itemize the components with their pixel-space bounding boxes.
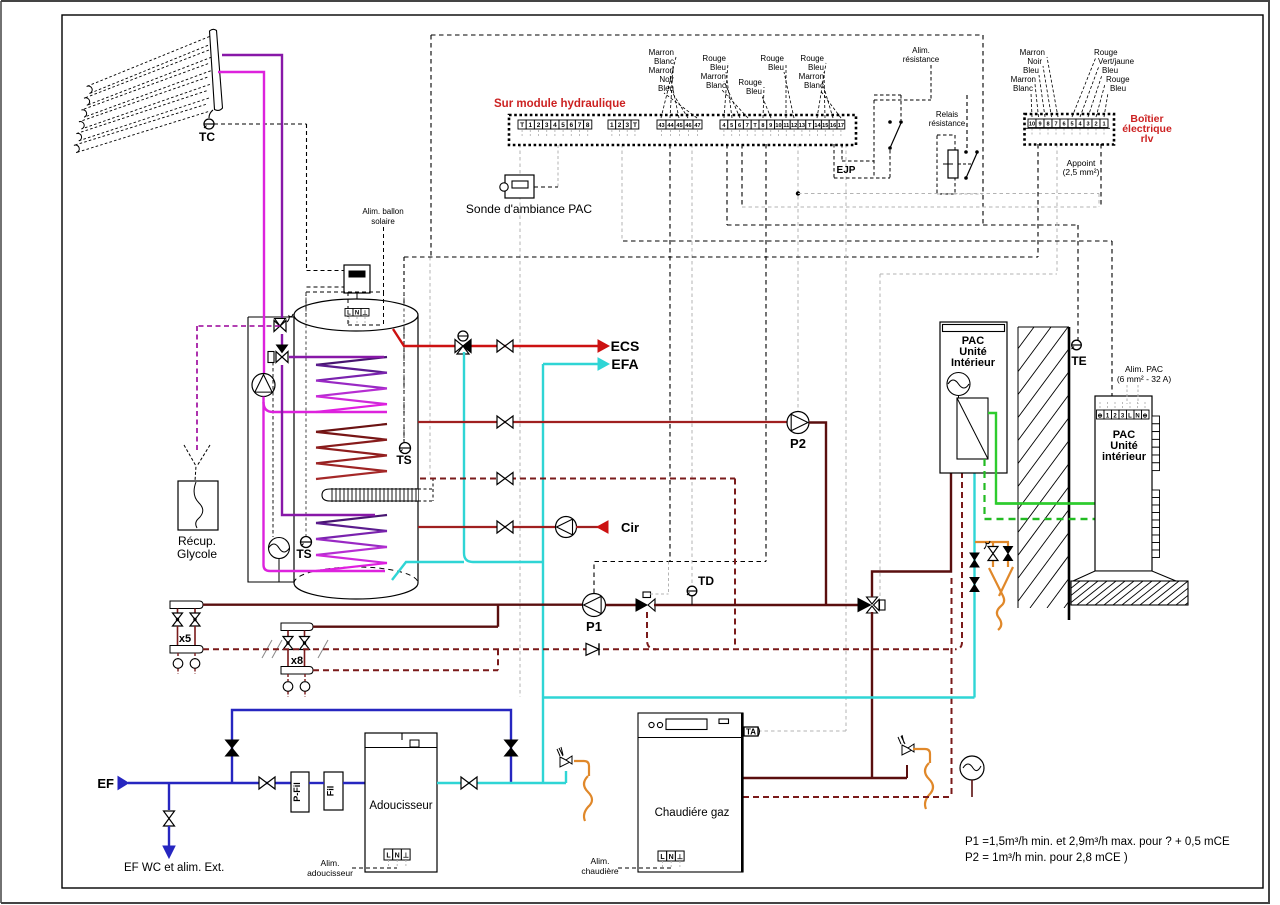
svg-text:Chaudiére gaz: Chaudiére gaz	[655, 807, 730, 819]
svg-text:Blanc: Blanc	[654, 57, 674, 66]
svg-text:2: 2	[1094, 122, 1097, 128]
svg-text:2: 2	[618, 122, 622, 129]
svg-text:6: 6	[569, 122, 573, 129]
svg-text:Marron: Marron	[799, 72, 824, 81]
pump Cir	[556, 517, 577, 538]
svg-text:Rouge: Rouge	[702, 54, 726, 63]
wire TC dashed	[214, 123, 307, 125]
adoucisseur box	[365, 733, 437, 872]
pipe Cir red	[418, 526, 556, 528]
svg-text:Rouge: Rouge	[738, 78, 762, 87]
svg-text:Alim.: Alim.	[912, 46, 930, 55]
funnel to glycol	[184, 445, 196, 481]
PAC hydraulic unit box	[940, 322, 1007, 473]
wire alim ballon	[383, 227, 385, 292]
svg-text:5: 5	[730, 123, 733, 129]
PAC isolation valves	[970, 553, 979, 560]
pipe boiler return dashed	[743, 578, 952, 797]
relay switch	[958, 163, 971, 165]
svg-text:P2: P2	[790, 436, 806, 451]
svg-text:8: 8	[761, 123, 764, 129]
wire gray y207	[742, 206, 1099, 208]
svg-text:16: 16	[830, 123, 836, 129]
svg-text:Alim. ballon: Alim. ballon	[362, 207, 403, 216]
arrow EFA	[598, 358, 609, 370]
terminal strip 10-1	[1028, 119, 1036, 128]
svg-text:EF WC et alim. Ext.: EF WC et alim. Ext.	[124, 862, 224, 874]
svg-text:9: 9	[769, 123, 772, 129]
svg-text:8: 8	[1046, 122, 1049, 128]
PAC base trapezoid	[1073, 571, 1176, 581]
arrow ECS	[598, 340, 609, 352]
terminal strip T1-8	[518, 120, 526, 129]
wire gray x1099	[1098, 194, 1100, 208]
svg-text:solaire: solaire	[371, 217, 395, 226]
3-way valve heating	[636, 599, 647, 611]
check valve return	[586, 643, 599, 655]
pipe cold feed to PAC	[543, 472, 975, 698]
svg-text:intérieur: intérieur	[1102, 451, 1147, 463]
svg-text:5: 5	[561, 122, 565, 129]
pipe P1 to valve	[606, 604, 641, 606]
sensor TS upper	[400, 443, 411, 454]
svg-text:T: T	[808, 123, 812, 129]
wire black x404 tank sensor well	[403, 257, 405, 443]
wire gray P2 power	[797, 144, 799, 411]
svg-text:7: 7	[746, 123, 749, 129]
valve EF	[259, 777, 267, 789]
svg-text:3: 3	[1086, 122, 1089, 128]
tank body	[294, 299, 418, 599]
relay coil	[948, 150, 958, 178]
svg-text:T: T	[520, 122, 524, 129]
manifold x8 bottom	[281, 667, 313, 675]
manifold x5 top	[170, 601, 203, 609]
svg-text:8: 8	[586, 122, 590, 129]
sensor TD	[687, 586, 697, 596]
pipe tank to P2	[418, 421, 787, 423]
pipe ECS red	[393, 329, 456, 346]
pipe Cir to arrow	[576, 526, 608, 528]
svg-text:(6 mm² - 32 A): (6 mm² - 32 A)	[1117, 374, 1171, 384]
safety group sanitary	[565, 771, 567, 783]
pump P2	[787, 412, 809, 434]
svg-text:11: 11	[783, 123, 789, 129]
svg-text:10: 10	[775, 123, 781, 129]
svg-text:N: N	[355, 311, 359, 317]
svg-text:Bleu: Bleu	[746, 87, 762, 96]
svg-text:Sonde d'ambiance PAC: Sonde d'ambiance PAC	[466, 202, 592, 216]
solar station frame	[248, 317, 294, 582]
PAC interior unit box	[1095, 396, 1152, 571]
svg-text:Noir: Noir	[1027, 57, 1042, 66]
wire TC to controller	[306, 124, 308, 271]
svg-text:Alim.: Alim.	[591, 856, 610, 866]
pipe x8 return dashed	[313, 652, 498, 673]
svg-text:TC: TC	[199, 130, 215, 144]
solar collector panel	[74, 29, 223, 152]
svg-text:3: 3	[545, 122, 549, 129]
svg-text:Rouge: Rouge	[760, 54, 784, 63]
svg-text:5: 5	[1070, 122, 1073, 128]
pipe tank middle coil return dashed	[420, 478, 735, 480]
pipe boiler supply	[743, 777, 907, 779]
wire black x727 to TE run	[726, 144, 728, 225]
svg-text:43: 43	[658, 123, 664, 129]
svg-text:P1: P1	[586, 619, 602, 634]
svg-text:Glycole: Glycole	[177, 547, 217, 561]
PAC fins upper	[1152, 416, 1160, 424]
pipe heating return dashed	[203, 648, 952, 650]
wire black x1101	[1100, 144, 1102, 207]
wire sonde dashed	[534, 186, 558, 188]
wires to alim pac	[1126, 385, 1128, 404]
svg-text:EJP: EJP	[837, 165, 856, 176]
svg-text:x5: x5	[179, 633, 191, 645]
thermostat TA	[744, 727, 758, 736]
x5 valves	[177, 609, 179, 614]
module dashed enclosure top	[431, 34, 983, 36]
svg-text:Marron: Marron	[649, 48, 674, 57]
svg-text:L: L	[660, 854, 665, 861]
pipe valve outlet to boiler	[871, 612, 873, 778]
arrow Cir	[597, 521, 608, 533]
wire y561 valve to strip	[669, 561, 767, 563]
wire alim adoucisseur	[352, 867, 397, 869]
terminal box boitier electrique	[1025, 114, 1115, 145]
wire black x1112 to PAC terminals	[1111, 241, 1113, 400]
svg-text:Noir: Noir	[659, 75, 674, 84]
module dashed enclosure right	[982, 35, 984, 225]
svg-text:N: N	[395, 853, 400, 860]
svg-text:Récup.: Récup.	[178, 534, 216, 548]
svg-text:Blanc: Blanc	[804, 81, 824, 90]
wire valve actuator gray	[650, 593, 669, 595]
svg-text:⊥: ⊥	[677, 853, 683, 861]
svg-text:46: 46	[685, 123, 691, 129]
svg-text:EF: EF	[97, 776, 114, 791]
svg-text:17: 17	[838, 123, 844, 129]
svg-text:47: 47	[694, 123, 700, 129]
wire gray TA riser	[845, 144, 847, 731]
boiler safety valve	[902, 745, 912, 755]
svg-text:P2 = 1m³/h min. pour 2,8 mCE ): P2 = 1m³/h min. pour 2,8 mCE )	[965, 852, 1128, 864]
wire inside station	[272, 362, 274, 537]
svg-text:Blanc: Blanc	[1013, 84, 1033, 93]
wire black x766 valve control	[765, 144, 767, 562]
PAC terminal strip	[1097, 410, 1105, 419]
wire gray x880 valve actuator	[879, 274, 881, 598]
tank LN terminal	[345, 309, 353, 317]
wall inner heavy line	[1068, 327, 1071, 620]
PAC fan	[947, 373, 970, 396]
pipe PAC return dashed	[961, 472, 963, 642]
wire black y241 to PAC unit	[623, 240, 1112, 242]
terminal strip 43-47	[657, 120, 666, 129]
svg-text:1: 1	[1102, 122, 1105, 128]
filter P-Fil	[291, 772, 309, 812]
pipe valve to junction	[654, 604, 865, 606]
tank boiler coil middle	[316, 424, 387, 432]
svg-text:Alim. PAC: Alim. PAC	[1125, 364, 1163, 374]
pipe cyan from adoucisseur	[437, 782, 566, 784]
pipe solar supply magenta	[218, 72, 264, 373]
svg-text:Marron: Marron	[701, 72, 726, 81]
svg-text:TS: TS	[296, 547, 311, 561]
wire gray x622 strip2	[621, 144, 623, 241]
svg-text:résistance: résistance	[929, 119, 966, 128]
svg-text:N: N	[669, 854, 674, 861]
glycol recovery box	[178, 481, 218, 530]
svg-text:résistance: résistance	[903, 55, 940, 64]
svg-text:L: L	[1128, 414, 1132, 420]
wire black y257	[404, 256, 1038, 258]
pipe solar return purple	[222, 55, 282, 318]
boiler relief stub	[906, 765, 908, 778]
module dashed enclosure left	[430, 35, 432, 257]
x5 thermometers	[177, 653, 179, 659]
svg-text:adoucisseur: adoucisseur	[307, 868, 353, 878]
solar 3-way valve with actuator	[274, 321, 280, 332]
wire gray y194 relais	[937, 193, 983, 195]
electric heating element	[322, 489, 418, 501]
junction dot	[796, 191, 800, 195]
wire gray TD	[691, 144, 693, 587]
svg-text:2: 2	[537, 122, 541, 129]
svg-text:13: 13	[799, 123, 805, 129]
svg-text:Marron: Marron	[649, 66, 674, 75]
solar pump	[252, 374, 275, 397]
svg-text:Vert/jaune: Vert/jaune	[1098, 57, 1135, 66]
svg-text:Intérieur: Intérieur	[951, 357, 996, 369]
valve cyan	[461, 777, 469, 789]
EF WC branch	[168, 783, 170, 810]
tank solar coil upper	[316, 357, 387, 365]
3-way valve PAC	[858, 599, 871, 612]
sensor TS lower	[301, 537, 312, 548]
svg-text:L: L	[347, 311, 351, 317]
svg-text:N: N	[1135, 414, 1139, 420]
solar station sensor symbol	[269, 538, 290, 559]
pipe green dashed over wall	[985, 518, 1098, 520]
svg-text:Fil: Fil	[326, 786, 336, 797]
svg-text:Bleu: Bleu	[808, 63, 824, 72]
bypass valve right	[505, 740, 518, 748]
svg-text:rlv: rlv	[1141, 133, 1154, 145]
pump P1	[583, 594, 606, 617]
pipe green condensate over wall	[996, 502, 1095, 504]
filling valve left	[988, 547, 998, 554]
wire TE drop	[1077, 225, 1079, 341]
svg-text:Bleu: Bleu	[1102, 66, 1118, 75]
svg-text:1: 1	[610, 122, 614, 129]
pipe cyan riser lower	[542, 698, 544, 784]
svg-text:Marron: Marron	[1020, 48, 1045, 57]
svg-text:P-Fil: P-Fil	[292, 782, 302, 802]
wire alim resistance	[930, 65, 932, 100]
bypass valve left	[226, 740, 239, 748]
solar check valve	[276, 352, 282, 363]
valve on middle coil flow	[497, 416, 505, 428]
svg-text:Bleu: Bleu	[710, 63, 726, 72]
svg-text:7: 7	[578, 122, 582, 129]
svg-text:Bleu: Bleu	[1110, 84, 1126, 93]
sensor TC	[204, 119, 214, 129]
svg-text:TE: TE	[1071, 354, 1086, 368]
wire strip1 to tank controller (gray)	[429, 257, 431, 478]
svg-text:Bleu: Bleu	[658, 84, 674, 93]
pipe magenta pump outlet to coils	[264, 397, 388, 413]
EJP switch	[874, 94, 901, 96]
valve on ECS	[497, 340, 505, 352]
orange hoses crossing	[989, 568, 1004, 630]
svg-text:Alim.: Alim.	[321, 858, 340, 868]
chaudiere LN terminal	[658, 851, 667, 861]
svg-text:⊥: ⊥	[362, 310, 367, 317]
wire gray long from strip T	[519, 144, 521, 697]
svg-text:7: 7	[1054, 122, 1057, 128]
svg-text:Rouge: Rouge	[1094, 48, 1118, 57]
svg-text:Bleu: Bleu	[768, 63, 784, 72]
tank top dashed box	[306, 291, 384, 293]
wire relais vertical	[966, 95, 968, 150]
svg-text:Marron: Marron	[1011, 75, 1036, 84]
chaudiere gaz box	[638, 713, 743, 872]
wire gray y274	[880, 273, 1057, 275]
x8 thermometers	[287, 674, 289, 681]
branch valve bypass dashed	[647, 612, 656, 649]
manifold x8 top	[281, 623, 313, 631]
svg-text:⊥: ⊥	[403, 852, 409, 860]
svg-text:⊕: ⊕	[1142, 414, 1147, 420]
svg-text:Sur module hydraulique: Sur module hydraulique	[494, 98, 626, 110]
pipe green dashed	[985, 459, 1098, 519]
svg-text:6: 6	[1062, 122, 1065, 128]
pipe green condensate	[988, 413, 1095, 504]
terminal strip 123T	[608, 120, 616, 129]
svg-text:Bleu: Bleu	[1023, 66, 1039, 75]
relais dashed box	[937, 135, 955, 194]
relief line dashed purple	[197, 325, 280, 327]
wire black x742 corner	[741, 144, 743, 207]
tank solar coil lower	[316, 515, 387, 523]
pipe EFA cyan riser	[542, 364, 544, 783]
tank sensor well TS1	[403, 292, 405, 443]
svg-text:Relais: Relais	[936, 110, 958, 119]
svg-text:Rouge: Rouge	[800, 54, 824, 63]
x8 valves	[287, 631, 289, 637]
wire black x670 strip to P1	[669, 144, 671, 562]
pipe PAC supply	[872, 446, 957, 597]
svg-text:12: 12	[791, 123, 797, 129]
svg-text:TD: TD	[698, 574, 714, 588]
arrow EF	[118, 777, 129, 790]
svg-text:6: 6	[738, 123, 741, 129]
adoucisseur LN terminal	[384, 849, 393, 860]
valve dashed circuit	[497, 473, 505, 485]
svg-text:ECS: ECS	[611, 338, 640, 354]
thermostatic mixing valve	[455, 340, 463, 353]
svg-text:x8: x8	[291, 655, 303, 667]
wire gray x1057 appoint	[1056, 144, 1058, 274]
pipe EF blue	[128, 782, 291, 784]
sensor TE	[1072, 340, 1082, 350]
pipe heating main flow	[203, 605, 498, 627]
pipe blue segments	[309, 782, 324, 784]
wire TE horizontal y225	[727, 224, 1078, 226]
tank sensor well TS2	[305, 292, 307, 536]
svg-text:TS: TS	[396, 453, 411, 467]
pressure gauge	[960, 756, 984, 780]
svg-text:TA: TA	[746, 728, 756, 737]
wire alim chaudiere	[618, 867, 671, 869]
terminal strip 4-17	[720, 120, 728, 129]
PAC heat exchanger	[957, 398, 988, 459]
svg-text:Cir: Cir	[621, 520, 639, 535]
svg-text:Rouge: Rouge	[1106, 75, 1130, 84]
svg-text:T: T	[753, 123, 757, 129]
svg-text:14: 14	[814, 123, 821, 129]
terminal box module hydraulique	[509, 115, 856, 145]
svg-text:⊕: ⊕	[1097, 414, 1102, 420]
wire gray y193 from dot	[798, 193, 1099, 195]
svg-text:10: 10	[1029, 122, 1035, 128]
svg-text:15: 15	[822, 123, 828, 129]
svg-text:(2,5 mm²): (2,5 mm²)	[1063, 167, 1100, 177]
orange discharge boiler	[913, 749, 930, 763]
svg-text:1: 1	[528, 122, 532, 129]
svg-text:44: 44	[667, 123, 674, 129]
bypass blue	[232, 710, 511, 783]
svg-text:Adoucisseur: Adoucisseur	[369, 800, 432, 812]
svg-text:chaudière: chaudière	[581, 866, 619, 876]
wall hatched	[758, 327, 1272, 608]
orange discharge sanitary	[574, 761, 589, 776]
svg-text:45: 45	[676, 123, 682, 129]
svg-text:T: T	[633, 122, 637, 129]
crossing slashes	[262, 640, 272, 658]
svg-text:9: 9	[1038, 122, 1041, 128]
svg-text:P1 =1,5m³/h min. et 2,9m³/h ma: P1 =1,5m³/h min. et 2,9m³/h max. pour ? …	[965, 836, 1230, 848]
svg-text:L: L	[386, 853, 391, 860]
sonde d'ambiance PAC box	[505, 175, 534, 198]
PAC filling loop orange	[975, 542, 1009, 546]
svg-text:Blanc: Blanc	[706, 81, 726, 90]
solar controller box	[344, 265, 370, 293]
wire black x1038 appoint	[1037, 144, 1039, 257]
pipe P2 down to main	[809, 423, 826, 606]
EJP dashed box	[833, 144, 835, 178]
collector sensor stub	[209, 110, 213, 118]
svg-text:EFA: EFA	[611, 356, 638, 372]
filling valve right	[1004, 547, 1013, 554]
wire P1 dashed	[594, 562, 670, 594]
wire gray TA horizontal	[758, 730, 846, 732]
manifold x5 bottom	[170, 646, 203, 654]
svg-text:3: 3	[625, 122, 629, 129]
pipe purple to upper coil	[289, 356, 384, 358]
valve on Cir	[497, 521, 505, 533]
svg-text:4: 4	[553, 122, 557, 129]
filter Fil	[324, 772, 343, 810]
PAC fins lower	[1152, 490, 1160, 498]
pipe cold water to tank	[464, 352, 543, 562]
